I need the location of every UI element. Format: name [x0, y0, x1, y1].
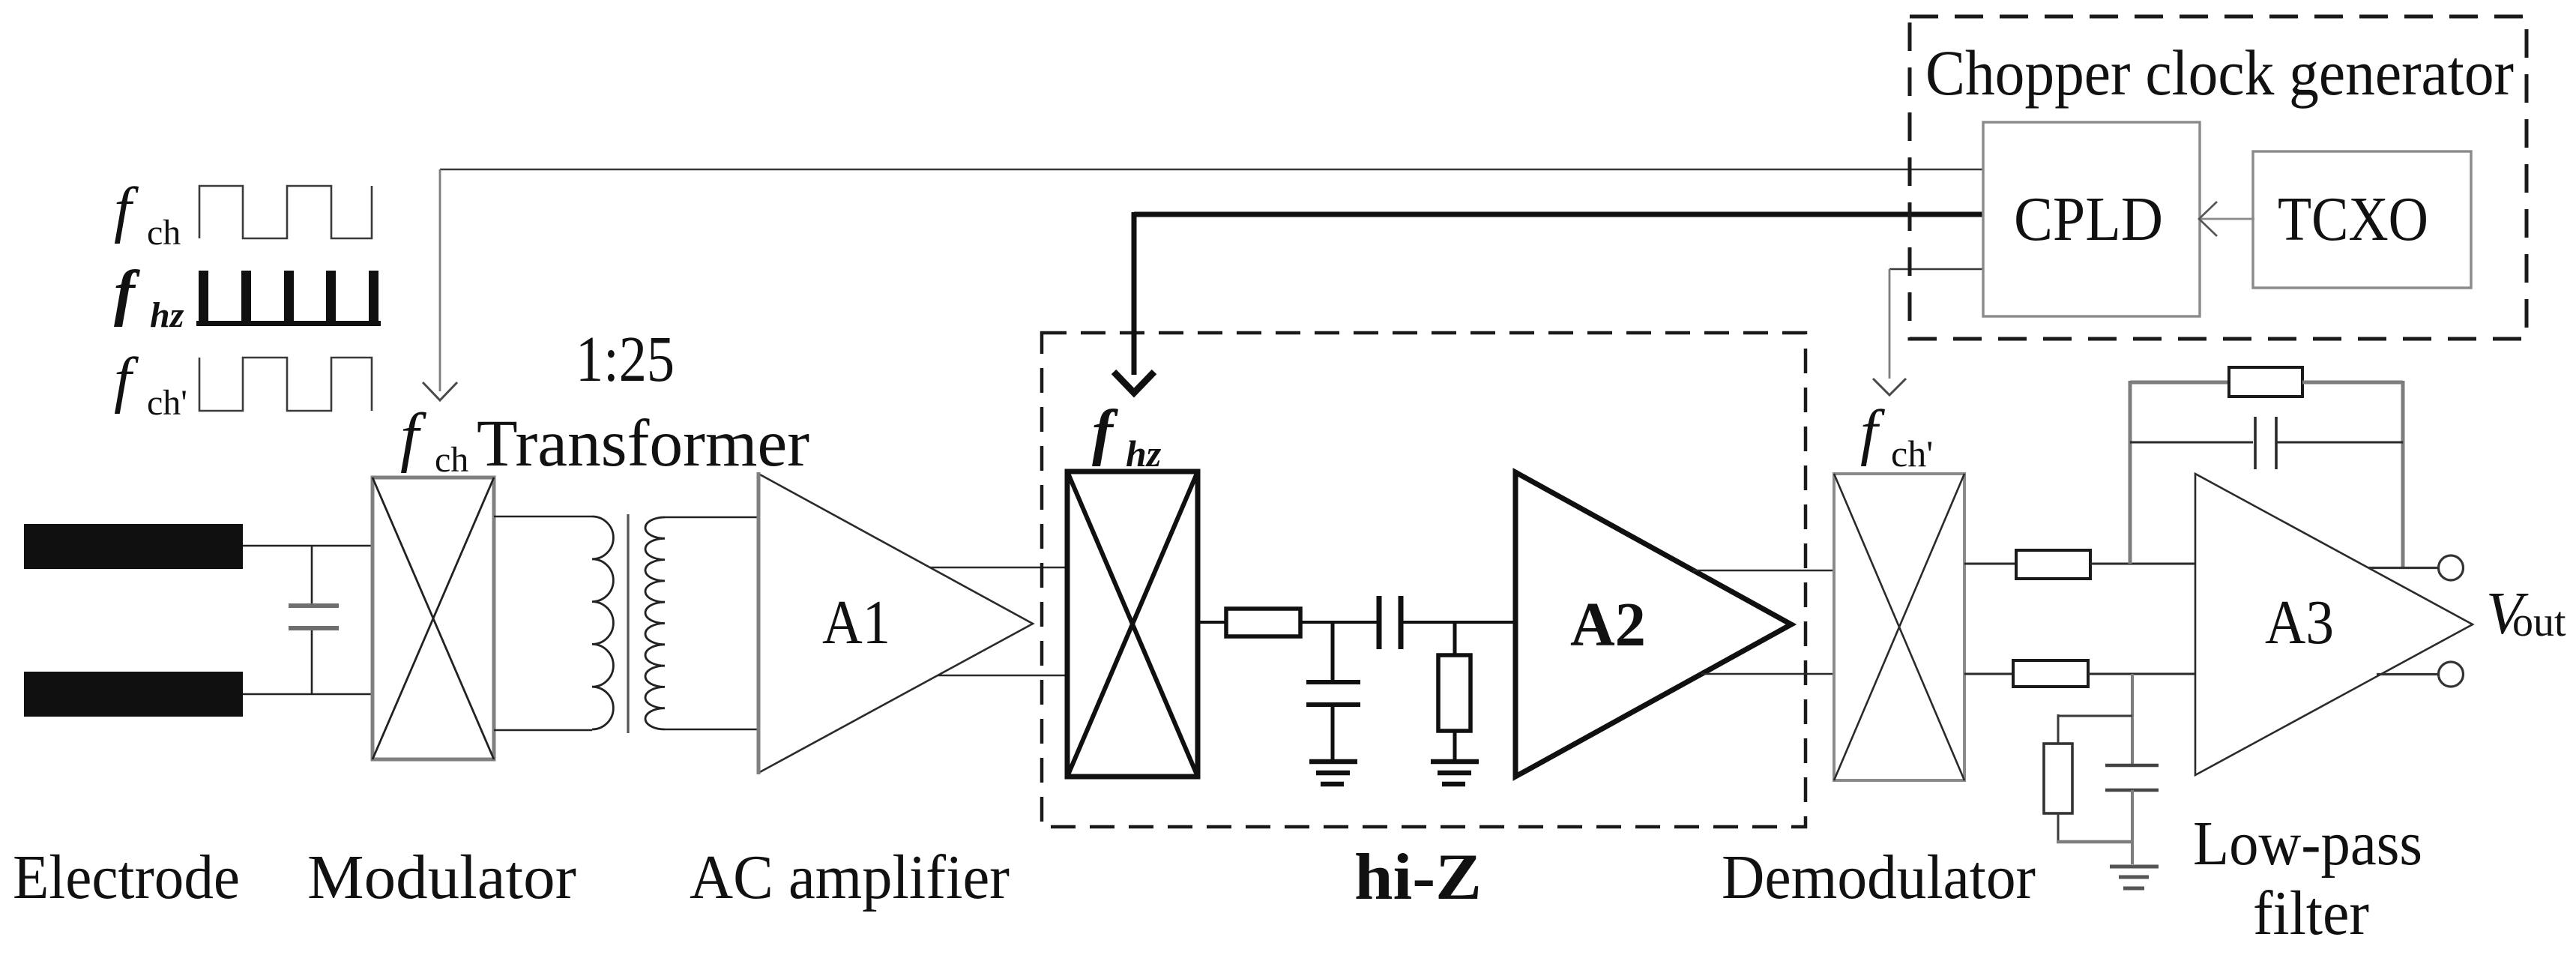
feedback resistor branch [2130, 367, 2403, 397]
svg-text:hi-Z: hi-Z [1354, 841, 1482, 914]
wire modulator to transformer bottom [494, 729, 592, 732]
capacitor input shunt [289, 546, 339, 694]
resistor R shunt to ground [1438, 622, 1471, 762]
waveform label f_hz [114, 258, 184, 335]
demodulator chopper box [1834, 474, 1964, 780]
wire demodulator out top [1964, 563, 2016, 565]
wire secondary to A1 top [665, 516, 758, 519]
ground under shunt resistor [1431, 762, 1479, 784]
feedback network right riser [2401, 381, 2405, 568]
wire series cap to A2 [1401, 621, 1515, 624]
svg-text:Transformer: Transformer [477, 407, 809, 480]
waveform label f_ch [114, 175, 181, 253]
wire A2 to demodulator bottom [1701, 673, 1834, 675]
svg-text:Modulator: Modulator [307, 843, 576, 912]
chopper box hi-Z [1067, 472, 1198, 777]
wire modulator to transformer top [494, 516, 592, 518]
svg-text:Chopper clock generator: Chopper clock generator [1925, 37, 2514, 109]
output terminal circle bottom [2439, 662, 2464, 687]
op-amp A3 [2195, 474, 2473, 775]
wire resistor to A3 top [2090, 563, 2195, 565]
svg-text:A1: A1 [822, 588, 890, 657]
low-pass shunt RC to ground [2044, 674, 2159, 864]
hi-Z dashed box [1042, 333, 1806, 827]
label f_ch' at demodulator [1860, 397, 1933, 475]
resistor R series [1226, 609, 1300, 636]
waveform f_ch' square wave [199, 358, 372, 411]
waveform f_ch square wave [199, 186, 372, 238]
op-amp A1 [758, 472, 1033, 774]
label V_out [2486, 581, 2566, 647]
label f_ch at modulator [400, 400, 468, 480]
output terminal circle top [2439, 555, 2464, 580]
TCXO box [2253, 151, 2471, 288]
resistor bottom output [2013, 660, 2088, 687]
wire secondary to A1 bottom [665, 729, 758, 731]
wire A1 to hi-Z chopper bottom [938, 675, 1067, 677]
svg-text:filter: filter [2253, 879, 2369, 948]
wire A3 output top terminal [2368, 567, 2439, 569]
svg-text:hz: hz [150, 295, 184, 335]
wire electrode top to modulator [243, 545, 372, 547]
chopper clock generator dashed box [1910, 16, 2527, 339]
svg-text:CPLD: CPLD [2014, 184, 2163, 254]
resistor top output [2016, 550, 2090, 579]
svg-text:Low-pass: Low-pass [2193, 809, 2422, 879]
transformer core [627, 514, 629, 733]
modulator chopper box [372, 478, 494, 759]
waveform f_hz pulse train [196, 271, 381, 326]
wire electrode bottom to modulator [243, 693, 372, 696]
label f_hz at chopper [1092, 397, 1162, 475]
CPLD box [1983, 122, 2200, 316]
transformer secondary winding [645, 517, 665, 729]
svg-text:ch': ch' [1891, 433, 1933, 475]
svg-text:ch': ch' [147, 383, 187, 423]
ground low-pass [2110, 867, 2159, 888]
waveform label f_ch' [114, 345, 187, 423]
svg-text:1:25: 1:25 [576, 322, 675, 395]
electrode plate bottom [24, 672, 243, 717]
wire f_ch' clock line from CPLD [1889, 268, 1983, 271]
wire resistor to A3 bottom [2088, 673, 2195, 675]
svg-text:A2: A2 [1570, 590, 1646, 660]
electrode plate top [24, 524, 243, 569]
svg-text:A3: A3 [2265, 588, 2334, 657]
wire resistor to series cap [1300, 621, 1379, 624]
svg-text:TCXO: TCXO [2278, 184, 2428, 254]
svg-text:ch: ch [435, 440, 468, 480]
svg-text:hz: hz [1126, 433, 1162, 475]
wire f_ch clock line from CPLD [440, 169, 1983, 171]
wire demodulator out bottom [1964, 673, 2013, 675]
transformer primary winding [592, 516, 613, 729]
wire f_hz thick clock line from CPLD [1134, 212, 1983, 217]
capacitor C shunt to ground [1306, 622, 1360, 762]
arrowhead f_ch' [1873, 379, 1906, 395]
svg-text:ch: ch [147, 213, 181, 253]
svg-text:Electrode: Electrode [13, 843, 240, 912]
arrowhead f_hz [1114, 372, 1154, 393]
wire chopper output [1198, 621, 1226, 624]
capacitor C series [1379, 596, 1401, 649]
svg-text:out: out [2512, 599, 2566, 645]
wire A3 output bottom terminal [2377, 673, 2439, 675]
feedback capacitor branch [2130, 417, 2403, 469]
op-amp A2 [1515, 472, 1791, 777]
feedback network left riser [2129, 381, 2132, 564]
svg-text:AC amplifier: AC amplifier [690, 843, 1010, 912]
arrow TCXO to CPLD [2199, 202, 2254, 236]
wire A1 to hi-Z chopper top [930, 567, 1067, 569]
wire A2 to demodulator top [1693, 570, 1834, 572]
ground under shunt capacitor [1309, 762, 1357, 784]
wire f_ch arrow down to modulator [439, 169, 441, 391]
svg-text:Demodulator: Demodulator [1722, 843, 2036, 912]
